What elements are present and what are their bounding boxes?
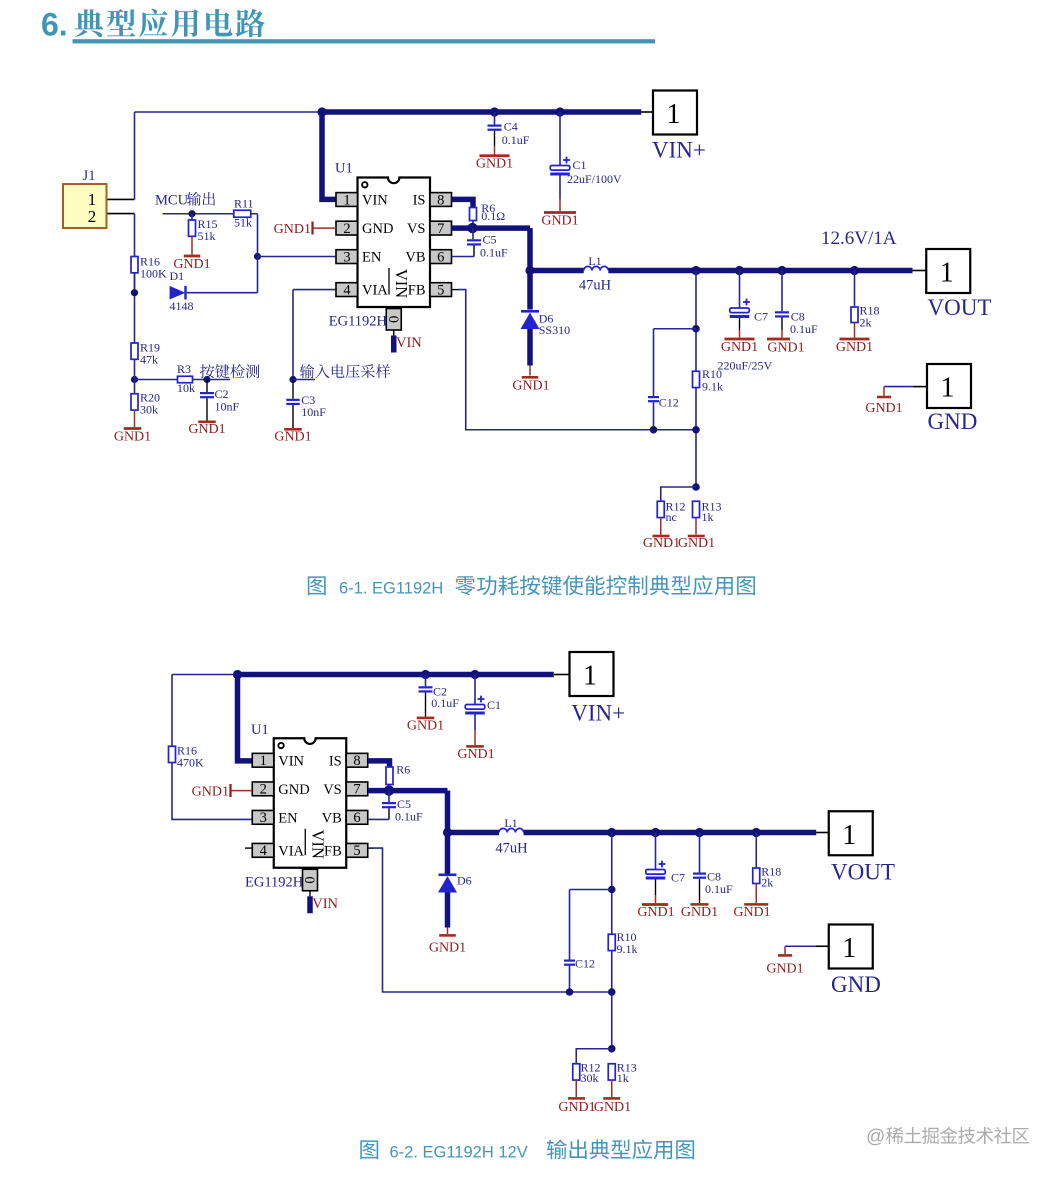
svg-text:0.1uF: 0.1uF (790, 322, 818, 336)
svg-text:0.1uF: 0.1uF (502, 133, 530, 147)
svg-text:5: 5 (437, 282, 444, 298)
svg-text:6-1. EG1192H: 6-1. EG1192H (339, 580, 443, 598)
svg-text:VIA: VIA (278, 843, 304, 859)
svg-text:7: 7 (437, 221, 444, 237)
svg-text:7: 7 (353, 782, 360, 798)
svg-text:L1: L1 (504, 816, 517, 830)
svg-text:4148: 4148 (170, 299, 194, 313)
svg-text:47k: 47k (140, 353, 158, 367)
svg-text:nc: nc (666, 510, 677, 524)
svg-text:VIN: VIN (396, 335, 422, 351)
svg-text:GND1: GND1 (541, 213, 578, 228)
svg-text:8: 8 (353, 753, 360, 769)
svg-text:1: 1 (343, 192, 350, 208)
svg-text:GND1: GND1 (476, 157, 513, 172)
svg-text:C1: C1 (573, 158, 587, 172)
svg-text:0.1Ω: 0.1Ω (481, 209, 505, 223)
svg-text:R3: R3 (177, 362, 191, 376)
svg-text:VIN: VIN (392, 269, 411, 298)
svg-text:3: 3 (343, 249, 350, 265)
svg-text:C7: C7 (671, 871, 685, 885)
svg-text:9.1k: 9.1k (617, 942, 638, 956)
svg-text:C1: C1 (487, 698, 501, 712)
svg-text:C12: C12 (575, 957, 595, 971)
svg-text:EN: EN (362, 250, 382, 266)
svg-text:GND1: GND1 (767, 341, 804, 356)
svg-text:4: 4 (343, 282, 351, 298)
svg-text:L1: L1 (588, 254, 601, 268)
svg-text:EG1192H: EG1192H (329, 314, 388, 330)
svg-text:2: 2 (343, 221, 350, 237)
svg-text:VIA: VIA (362, 283, 388, 299)
svg-text:C5: C5 (483, 233, 497, 247)
svg-text:GND1: GND1 (512, 378, 549, 393)
svg-text:VB: VB (322, 810, 342, 826)
svg-text:6: 6 (437, 249, 444, 265)
svg-text:51k: 51k (234, 216, 252, 230)
svg-text:R11: R11 (234, 197, 254, 211)
svg-text:VS: VS (323, 782, 342, 798)
svg-text:4: 4 (260, 843, 268, 859)
svg-text:GND1: GND1 (766, 962, 803, 977)
svg-text:1: 1 (260, 753, 267, 769)
svg-text:47uH: 47uH (495, 841, 528, 857)
svg-text:10nF: 10nF (301, 405, 326, 419)
svg-text:470K: 470K (177, 756, 204, 770)
svg-text:9.1k: 9.1k (702, 380, 723, 394)
svg-text:5: 5 (353, 843, 360, 859)
svg-text:GND1: GND1 (274, 222, 311, 237)
svg-text:0.1uF: 0.1uF (480, 246, 508, 260)
svg-text:VOUT: VOUT (831, 859, 895, 884)
svg-text:0.1uF: 0.1uF (395, 810, 423, 824)
svg-text:GND1: GND1 (558, 1100, 595, 1115)
svg-text:GND1: GND1 (274, 429, 311, 444)
svg-text:1k: 1k (702, 510, 714, 524)
svg-text:GND1: GND1 (678, 536, 715, 551)
svg-text:1: 1 (842, 820, 856, 851)
svg-text:47uH: 47uH (579, 278, 612, 294)
svg-text:D6: D6 (457, 873, 472, 887)
svg-text:1: 1 (842, 933, 856, 964)
svg-text:U1: U1 (251, 722, 269, 738)
svg-text:0: 0 (301, 876, 317, 883)
svg-text:@: @ (866, 1127, 885, 1148)
svg-text:2k: 2k (860, 316, 872, 330)
svg-text:10nF: 10nF (215, 400, 240, 414)
svg-text:GND1: GND1 (637, 905, 674, 920)
svg-text:VIN+: VIN+ (571, 701, 625, 726)
svg-text:GND1: GND1 (721, 340, 758, 355)
svg-text:8: 8 (437, 192, 444, 208)
svg-text:GND: GND (831, 972, 881, 997)
svg-text:EN: EN (278, 810, 298, 826)
svg-text:GND: GND (362, 221, 393, 237)
svg-text:GND1: GND1 (429, 940, 466, 955)
svg-text:GND1: GND1 (407, 718, 444, 733)
svg-text:VB: VB (405, 250, 425, 266)
svg-text:220uF/25V: 220uF/25V (718, 359, 773, 373)
svg-text:GND1: GND1 (681, 905, 718, 920)
svg-text:U1: U1 (335, 161, 353, 177)
svg-text:GND1: GND1 (865, 401, 902, 416)
svg-text:30k: 30k (140, 403, 158, 417)
svg-text:GND1: GND1 (457, 747, 494, 762)
svg-text:3: 3 (260, 810, 267, 826)
svg-text:GND1: GND1 (192, 785, 229, 800)
svg-text:GND1: GND1 (836, 340, 873, 355)
svg-text:VIN: VIN (362, 193, 388, 209)
svg-text:1: 1 (583, 661, 597, 692)
svg-text:1: 1 (667, 99, 681, 130)
svg-text:MCU: MCU (155, 193, 189, 209)
svg-text:22uF/100V: 22uF/100V (567, 172, 622, 186)
svg-text:0.1uF: 0.1uF (431, 696, 459, 710)
svg-text:2: 2 (260, 782, 267, 798)
svg-text:IS: IS (413, 193, 426, 209)
svg-text:GND: GND (278, 782, 309, 798)
svg-text:2k: 2k (761, 876, 773, 890)
svg-text:0.1uF: 0.1uF (705, 882, 733, 896)
svg-text:J1: J1 (83, 168, 96, 184)
svg-text:C4: C4 (504, 120, 518, 134)
svg-text:VIN: VIN (308, 830, 327, 859)
svg-text:1: 1 (940, 258, 954, 289)
svg-text:VS: VS (407, 221, 426, 237)
svg-text:C7: C7 (754, 310, 768, 324)
svg-text:GND1: GND1 (643, 536, 680, 551)
svg-text:51k: 51k (198, 229, 216, 243)
svg-text:6: 6 (353, 810, 360, 826)
svg-text:VOUT: VOUT (928, 295, 992, 320)
svg-text:D1: D1 (170, 269, 185, 283)
svg-text:6.: 6. (41, 7, 68, 43)
svg-text:10k: 10k (177, 381, 195, 395)
svg-text:2: 2 (88, 207, 97, 226)
svg-text:1k: 1k (617, 1071, 629, 1085)
svg-text:1: 1 (941, 373, 955, 404)
svg-text:IS: IS (329, 753, 342, 769)
svg-text:30k: 30k (581, 1071, 599, 1085)
svg-text:6-2. EG1192H 12V: 6-2. EG1192H 12V (390, 1144, 528, 1162)
svg-text:GND1: GND1 (188, 422, 225, 437)
svg-text:SS310: SS310 (539, 323, 570, 337)
svg-text:GND1: GND1 (733, 905, 770, 920)
svg-text:C12: C12 (659, 396, 679, 410)
svg-text:GND1: GND1 (114, 429, 151, 444)
svg-text:EG1192H: EG1192H (245, 874, 304, 890)
svg-text:0: 0 (385, 316, 401, 323)
svg-text:R6: R6 (396, 763, 410, 777)
svg-text:GND: GND (928, 409, 978, 434)
svg-text:100K: 100K (140, 267, 167, 281)
svg-text:VIN+: VIN+ (652, 138, 706, 163)
svg-text:GND1: GND1 (594, 1100, 631, 1115)
svg-text:VIN: VIN (278, 753, 304, 769)
svg-text:12.6V/1A: 12.6V/1A (821, 228, 897, 249)
svg-text:VIN: VIN (312, 896, 338, 912)
